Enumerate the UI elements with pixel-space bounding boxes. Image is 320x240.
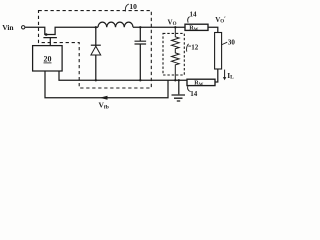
svg-text:30: 30	[228, 39, 236, 47]
svg-text:Vfb: Vfb	[99, 101, 109, 111]
svg-text:14: 14	[190, 90, 198, 98]
svg-text:VO: VO	[168, 19, 177, 28]
svg-text:Vin: Vin	[2, 23, 14, 32]
svg-text:12: 12	[191, 44, 199, 52]
svg-text:IL: IL	[227, 71, 234, 81]
svg-text:14: 14	[190, 10, 198, 18]
svg-text:10: 10	[129, 2, 137, 11]
svg-text:20: 20	[44, 55, 52, 64]
svg-text:VO′: VO′	[215, 16, 226, 25]
svg-text:RW: RW	[189, 25, 198, 32]
svg-text:RW: RW	[194, 80, 203, 87]
